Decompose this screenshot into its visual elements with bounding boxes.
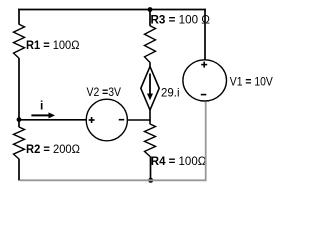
svg-text:V1 = 10V: V1 = 10V: [230, 75, 273, 89]
wire right vertical upper (top corner to V1): [204, 9, 206, 60]
resistor R2: [14, 127, 25, 159]
wire middle branch lower lead: [150, 156, 152, 180]
svg-text:R1 = 100Ω: R1 = 100Ω: [26, 38, 80, 52]
svg-text:R2 = 200Ω: R2 = 200Ω: [26, 142, 80, 156]
node junction left: [17, 117, 22, 122]
wire top horizontal: [18, 9, 206, 11]
wire middle horizontal left of V2: [19, 119, 86, 121]
resistor R3: [145, 26, 156, 63]
svg-text:i: i: [40, 99, 43, 113]
V1 plus terminal: [201, 62, 207, 68]
wire bottom and right-lower gray return: [20, 102, 206, 181]
V2 plus terminal: [89, 117, 95, 123]
dependent source arrow: [147, 74, 153, 101]
resistor R1: [14, 24, 25, 58]
wire dependent source to junction: [149, 110, 151, 125]
wire middle horizontal right of V2: [127, 119, 150, 121]
wire left vertical middle: [18, 58, 20, 127]
svg-text:29.i: 29.i: [161, 85, 180, 99]
V1 minus terminal: [201, 94, 207, 96]
svg-text:R4 = 100Ω: R4 = 100Ω: [151, 154, 207, 168]
wire left vertical lower lead: [18, 159, 20, 181]
current arrow i: [31, 112, 55, 118]
wire between R3 and dependent source: [149, 62, 151, 67]
node junction top: [148, 7, 153, 12]
V2 minus terminal: [119, 119, 125, 121]
voltage source V1: [183, 60, 227, 101]
voltage source V2: [86, 99, 127, 141]
svg-text:V2 =3V: V2 =3V: [87, 85, 122, 99]
node junction bottom: [148, 178, 153, 183]
svg-text:R3 = 100 Ω: R3 = 100 Ω: [151, 13, 211, 27]
resistor R4: [145, 124, 156, 156]
dependent current source 29.i diamond: [141, 67, 159, 111]
wire left vertical upper lead: [18, 9, 20, 25]
wire middle branch upper lead: [149, 10, 151, 26]
